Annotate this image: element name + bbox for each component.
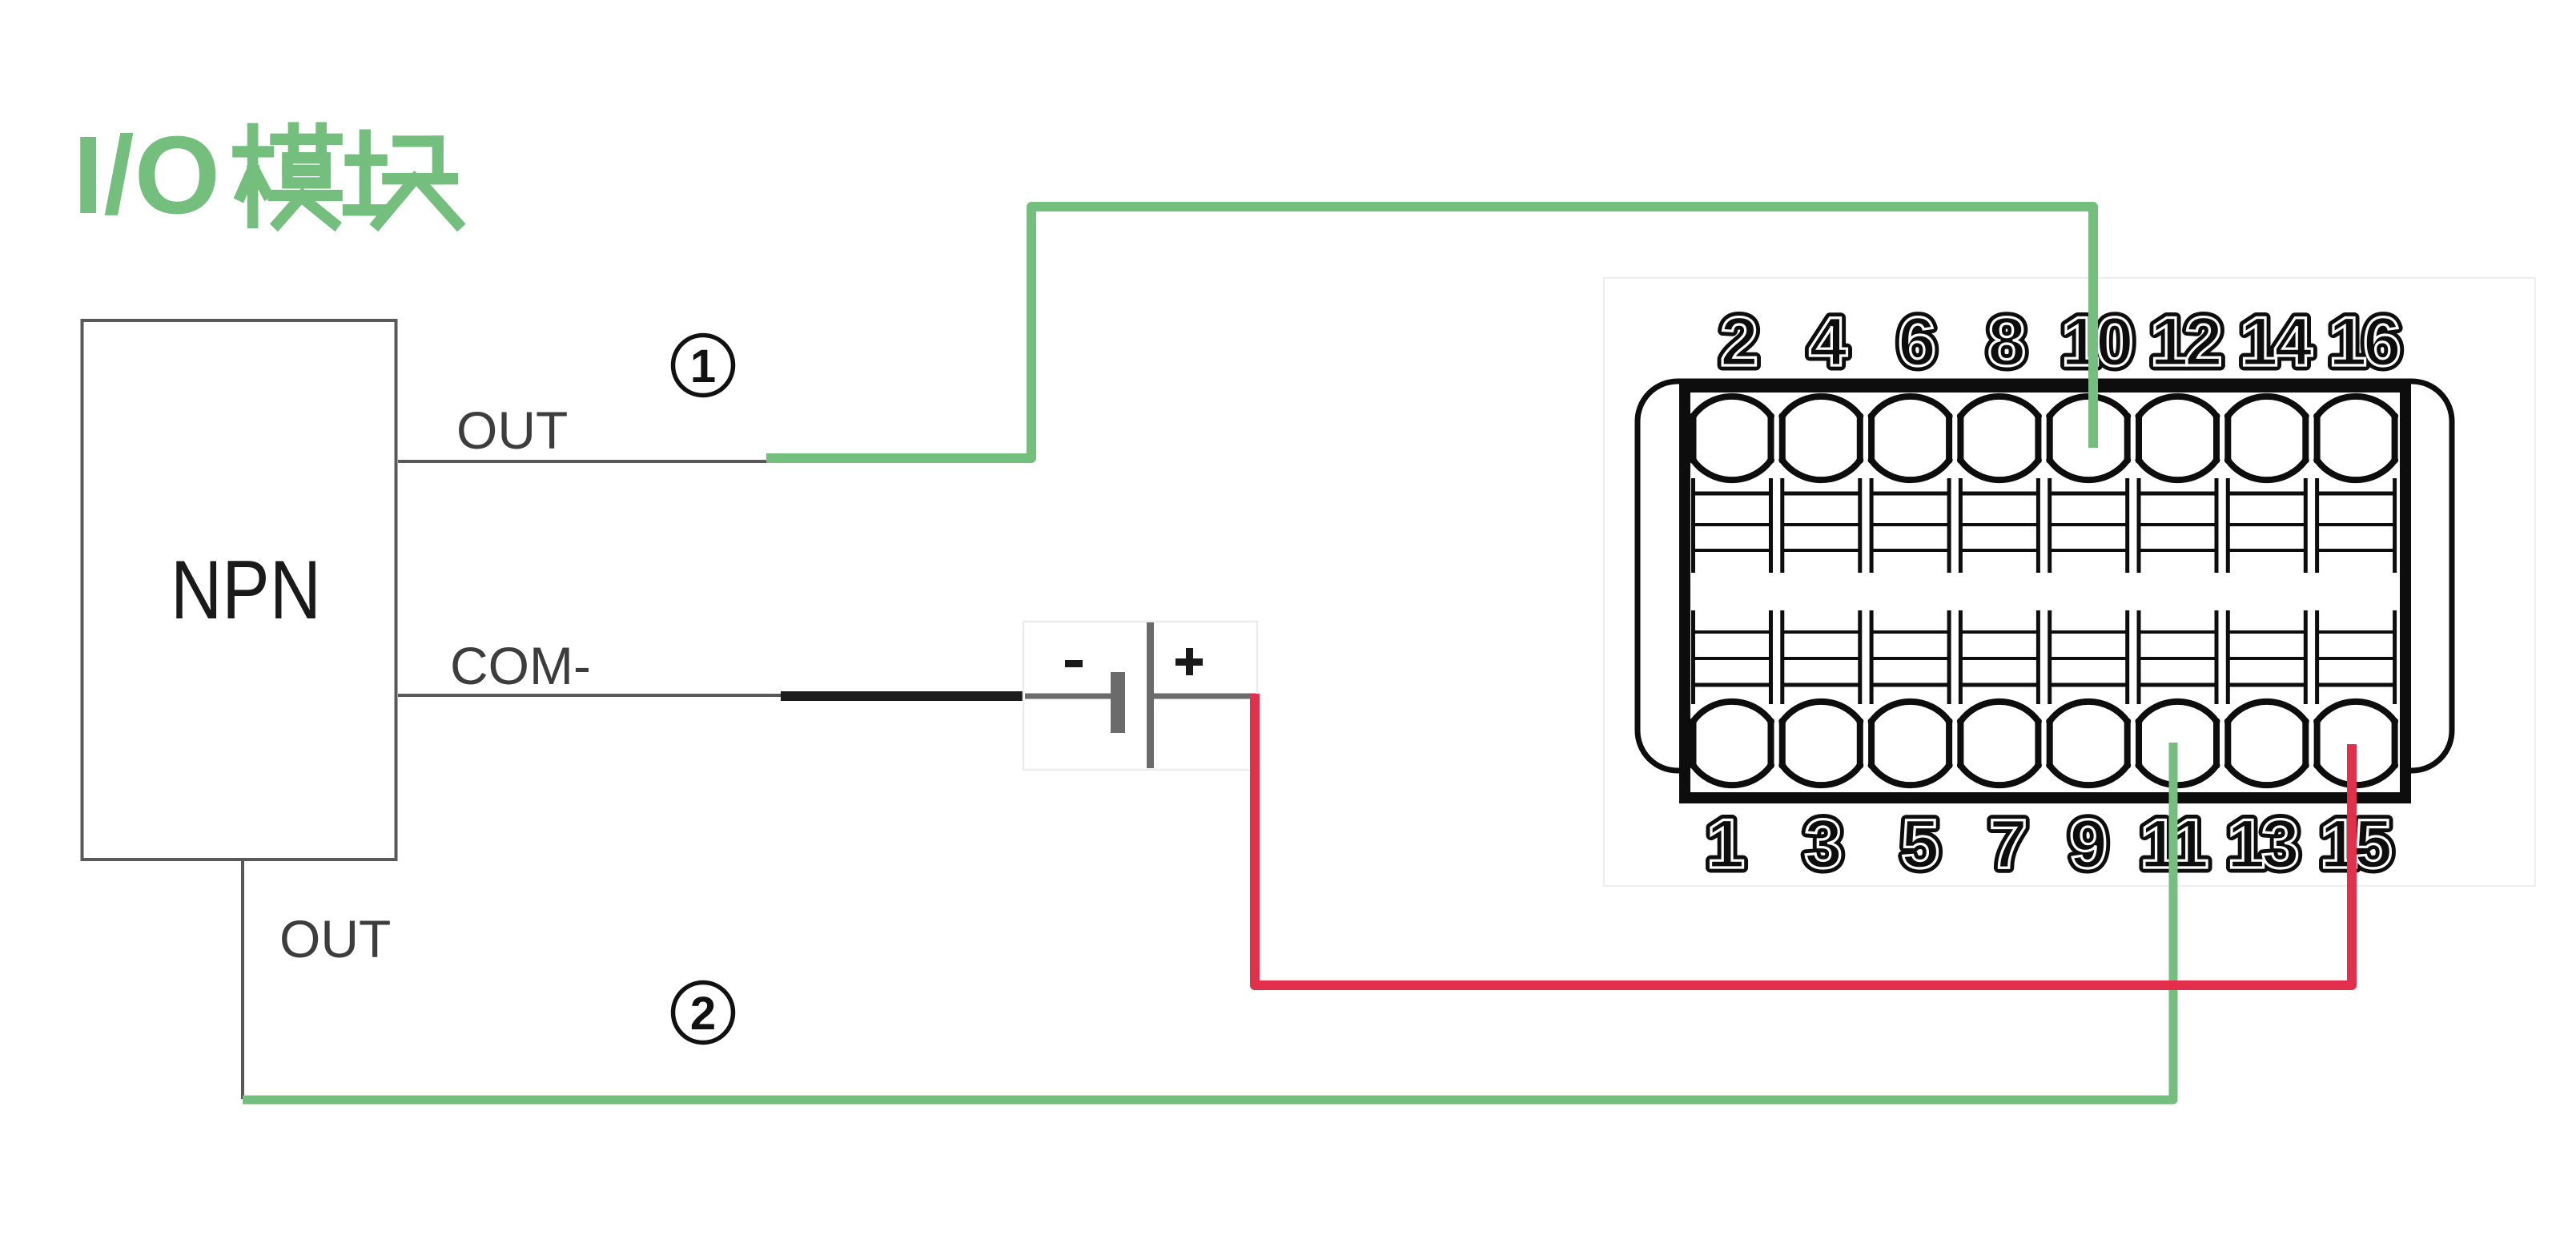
svg-text:14: 14 (2240, 304, 2313, 380)
svg-text:OUT: OUT (456, 401, 568, 460)
svg-text:4: 4 (1809, 304, 1847, 380)
svg-text:5: 5 (1901, 806, 1939, 883)
svg-text:1: 1 (1706, 806, 1745, 883)
svg-text:6: 6 (1898, 304, 1936, 380)
svg-text:2: 2 (690, 988, 716, 1040)
svg-text:12: 12 (2150, 304, 2220, 380)
svg-text:NPN: NPN (171, 544, 321, 637)
svg-text:2: 2 (1720, 304, 1758, 380)
svg-text:9: 9 (2069, 806, 2108, 883)
svg-text:13: 13 (2227, 806, 2297, 883)
svg-text:8: 8 (1987, 304, 2026, 380)
svg-text:7: 7 (1989, 806, 2027, 883)
svg-text:OUT: OUT (279, 909, 391, 968)
svg-text:I/O: I/O (73, 114, 220, 237)
svg-text:3: 3 (1804, 806, 1843, 883)
svg-text:1: 1 (690, 340, 716, 393)
svg-text:COM-: COM- (450, 636, 591, 695)
svg-text:16: 16 (2329, 304, 2399, 380)
